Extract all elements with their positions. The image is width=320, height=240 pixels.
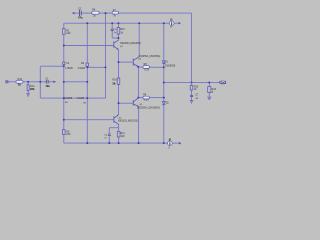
wire second bus x87.3 (86, 23, 88, 63)
wire output line y82.4 (164, 81, 220, 83)
wire mid vertical x118.5 emitter bus (118, 50, 120, 78)
wire y67.3 mid link (87, 66, 105, 68)
resistor R14 shunt to ground (27, 85, 29, 91)
resistor R3 on left bus lower (63, 130, 71, 137)
svg-text:R10: R10 (120, 28, 125, 31)
resistor R1 on left bus (63, 29, 72, 36)
svg-text:2N3055A_(2N3055A): 2N3055A_(2N3055A) (137, 107, 160, 110)
wire feedback y98.1 (40, 97, 105, 99)
port output oval (220, 81, 227, 85)
wire base Q2 y45.5 (64, 45, 114, 47)
svg-text:1.5kΩ5: 1.5kΩ5 (76, 97, 84, 100)
port arrow right top (179, 22, 182, 25)
transistor Q2 driver NPN (114, 40, 119, 50)
node rail x87.3 (86, 22, 88, 24)
wire y66.2 to input box (40, 65, 64, 67)
svg-text:10u: 10u (45, 84, 50, 88)
wire output rail x138.4 (137, 67, 139, 98)
svg-text:D1N5059: D1N5059 (165, 65, 176, 68)
diode D2 (162, 102, 165, 107)
wire emitter R Q3 leads y67.1 (138, 66, 143, 68)
capacitor C4 small on left bus (63, 62, 70, 65)
svg-text:2N3055A_(2N3055A): 2N3055A_(2N3055A) (139, 55, 161, 58)
transistor Q3 output NPN (133, 57, 139, 67)
node rail x112.2 (111, 22, 113, 24)
svg-text:1.5kΩ5: 1.5kΩ5 (77, 67, 85, 70)
svg-text:47u: 47u (78, 16, 83, 20)
svg-text:1.0kΩ5: 1.0kΩ5 (64, 97, 72, 100)
wire RC join y37.3 (111, 31, 113, 38)
capacitor C2 top left (80, 10, 82, 16)
node bottom rail (86, 142, 88, 144)
node rail x139.2 (138, 22, 140, 24)
node Q5 emitter (137, 97, 139, 99)
diode D1 (162, 61, 165, 67)
node Q5 base tap (118, 102, 120, 104)
wire left bus x63.8 (63, 23, 65, 29)
ammeter I2 bottom (168, 138, 173, 150)
transistor Q5 output (lower) (133, 98, 138, 107)
svg-text:220: 220 (66, 32, 71, 35)
node dots (27, 12, 210, 144)
resistor R7 top rail (112, 9, 118, 18)
resistor R16 mid bias (117, 78, 120, 84)
wire x40.3 vertical (39, 66, 41, 98)
node bus y66.2 (63, 65, 65, 67)
svg-text:22k: 22k (30, 87, 35, 91)
capacitor C3 (RC pair left branch) (111, 29, 114, 30)
svg-text:MJE15030_(MJE15030): MJE15030_(MJE15030) (120, 42, 141, 45)
ground input (26, 94, 30, 96)
resistor R6 top rail (92, 9, 100, 18)
resistor R9 emitter Q5 (143, 94, 150, 102)
resistor R15 zobel (190, 85, 193, 90)
svg-text:R12: R12 (18, 78, 23, 81)
transistor Q4 driver (lower) (114, 115, 119, 125)
capacitor C7 zobel (190, 95, 193, 96)
wire y81.8 input row (8, 81, 16, 83)
port input square (6, 81, 8, 83)
wire y81.8 between buses (64, 81, 88, 83)
node mid y67.3 (86, 66, 88, 68)
wire V+ rail y23 (64, 22, 164, 24)
wire Q4 emitter RC bridge y127.7 (118, 124, 120, 127)
node rail x163.8 (163, 22, 165, 24)
wire load x209.3 (208, 82, 210, 86)
wire collector Q3 x139.2 (138, 23, 140, 57)
svg-text:R16: R16 (112, 79, 117, 82)
svg-text:100: 100 (121, 135, 126, 138)
capacitor C5 (lower RC left branch) (108, 134, 111, 136)
wire base Q5 y103.2 (119, 102, 134, 104)
wire base Q4 y119.7 (64, 119, 114, 121)
node input y81.8 (27, 81, 29, 83)
resistor R10 (RC pair right branch) (117, 27, 125, 34)
node feedback y98.1 (63, 97, 65, 99)
node Q3 base tap (118, 61, 120, 63)
wire top feedback rail y13 (74, 12, 79, 14)
wire right vertical x191.5 (191, 13, 193, 82)
node bus y81.8 (63, 81, 65, 83)
wire x105.5 vertical (105, 13, 107, 98)
resistor R8 emitter Q3 (143, 63, 150, 71)
resistor RL load (208, 87, 217, 94)
wire emitter R Q5 leads y97.6 (138, 97, 143, 99)
ground zobel (190, 101, 194, 103)
port arrow input (54, 81, 57, 84)
svg-text:0.33: 0.33 (144, 98, 149, 101)
node top rail x105.5 (105, 12, 107, 14)
svg-text:Out1: Out1 (220, 82, 226, 85)
wire collector Q5 x138.6 (138, 106, 140, 143)
resistor R11 (lower RC right branch) (117, 131, 125, 137)
svg-text:0.33: 0.33 (144, 68, 149, 71)
node rail x118.4 (117, 22, 119, 24)
node RC join (117, 37, 119, 39)
svg-text:220: 220 (66, 133, 71, 136)
resistor R2 on bus x87.3 (81, 62, 89, 66)
port arrow left V+ feed (72, 12, 74, 15)
wire base Q3 y62.1 (119, 61, 134, 63)
node Q3 emitter (137, 66, 139, 68)
port arrow right bottom (179, 142, 182, 145)
wire right bus x163.8 (163, 23, 165, 60)
resistor R12 input (16, 78, 23, 87)
svg-text:MJE15031_(MJE15031): MJE15031_(MJE15031) (118, 119, 138, 122)
node output y82.4 (163, 81, 165, 83)
ground load (207, 97, 211, 100)
node diode D1 out (163, 66, 165, 68)
capacitor C1 series input (46, 80, 48, 84)
wire shunt cap x28.1 (27, 82, 29, 85)
zobel branch x191.5 (191, 82, 193, 100)
node Q4 base wire (63, 119, 65, 121)
ammeter I1 top (169, 17, 174, 29)
wire V- rail y143.1 (64, 142, 164, 144)
svg-text:1.5kΩ5: 1.5kΩ5 (65, 67, 73, 70)
node Q2 base (63, 45, 65, 47)
